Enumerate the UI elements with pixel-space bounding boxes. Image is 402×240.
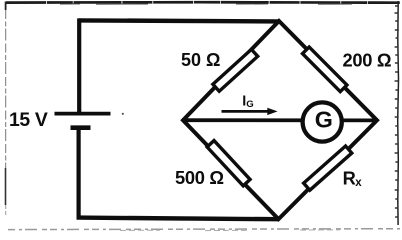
- svg-text:x: x: [355, 177, 362, 189]
- resistor RX body: [304, 146, 352, 190]
- svg-text:G: G: [246, 99, 253, 110]
- wire bottom (to bottom node): [77, 218, 279, 220]
- resistor R3 500 ohm body: [207, 141, 250, 186]
- resistor R1 50 ohm body: [213, 49, 258, 91]
- wire middle (bridge galvanometer branch): [183, 118, 377, 122]
- bridge diamond wires: [183, 21, 377, 219]
- galvanometer G circle: [303, 102, 342, 141]
- border frame bottom: [8, 228, 400, 231]
- ink dot artifact: [122, 113, 124, 115]
- wire top (battery to top node): [79, 20, 279, 21]
- resistor R2 200 ohm body: [302, 47, 346, 92]
- border frame right: [397, 1, 400, 225]
- svg-text:G: G: [315, 106, 333, 132]
- svg-text:500 Ω: 500 Ω: [175, 167, 224, 188]
- current IG arrow: [222, 110, 270, 113]
- wire left lower (battery - down): [76, 128, 80, 220]
- svg-text:R: R: [343, 167, 356, 188]
- border frame top: [6, 1, 400, 4]
- battery B1 long plate: [55, 112, 111, 116]
- svg-text:200 Ω: 200 Ω: [343, 50, 392, 71]
- svg-text:15 V: 15 V: [9, 109, 48, 131]
- border frame left: [5, 2, 7, 11]
- svg-text:50 Ω: 50 Ω: [181, 50, 220, 70]
- wire left upper (down to battery +): [77, 18, 81, 113]
- battery B1 short plate: [71, 125, 91, 130]
